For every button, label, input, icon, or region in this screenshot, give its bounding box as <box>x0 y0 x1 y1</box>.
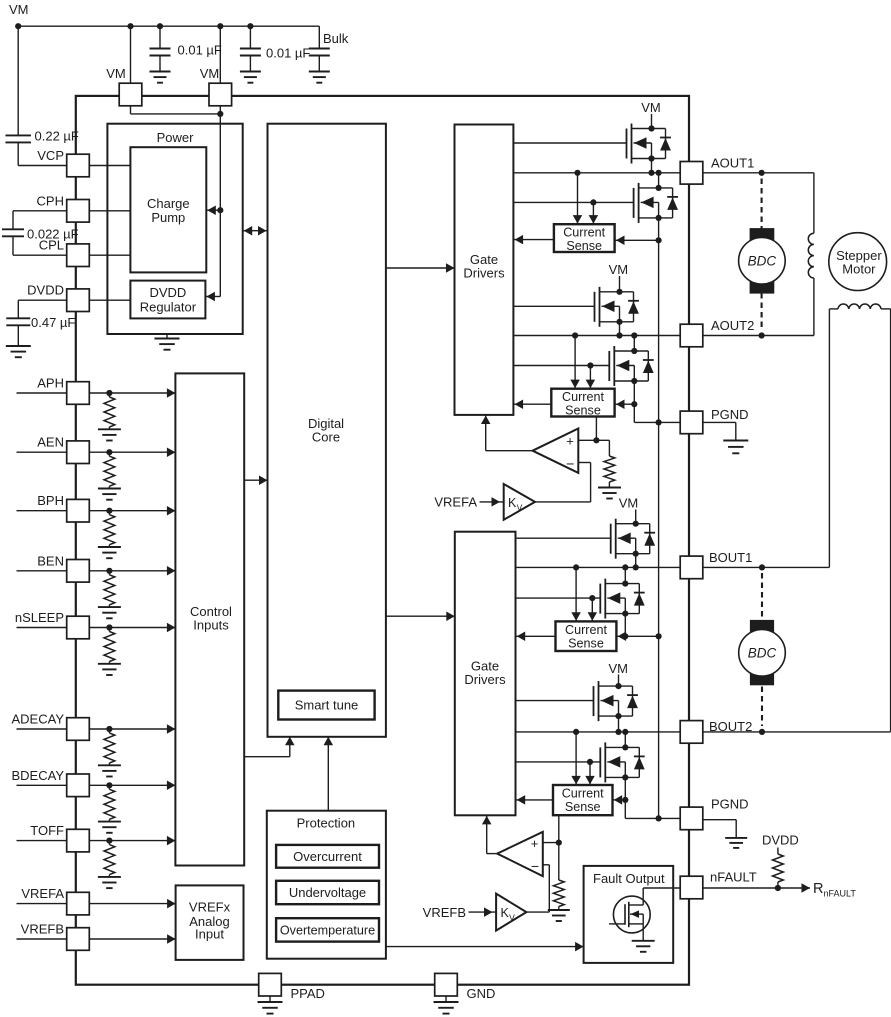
svg-text:Bulk: Bulk <box>323 31 349 46</box>
svg-text:Regulator: Regulator <box>140 300 197 315</box>
svg-text:Drivers: Drivers <box>464 672 506 687</box>
svg-text:BDC: BDC <box>748 646 777 661</box>
svg-text:Sense: Sense <box>568 636 604 650</box>
svg-text:nSLEEP: nSLEEP <box>15 610 64 625</box>
svg-text:Input: Input <box>195 927 224 942</box>
svg-text:nFAULT: nFAULT <box>824 889 857 899</box>
svg-text:Protection: Protection <box>297 816 356 831</box>
svg-text:AOUT2: AOUT2 <box>711 318 754 333</box>
svg-text:VREFB: VREFB <box>423 905 466 920</box>
svg-text:VREFB: VREFB <box>21 922 64 937</box>
svg-text:BDECAY: BDECAY <box>12 768 65 783</box>
svg-text:V: V <box>509 913 515 923</box>
svg-text:0.47 µF: 0.47 µF <box>31 315 75 330</box>
svg-text:Smart tune: Smart tune <box>295 698 359 713</box>
svg-text:Drivers: Drivers <box>463 266 505 281</box>
svg-text:VM: VM <box>641 100 661 115</box>
svg-text:VREFx: VREFx <box>189 900 231 915</box>
svg-text:Charge: Charge <box>147 196 190 211</box>
svg-text:DVDD: DVDD <box>762 833 799 848</box>
svg-text:Core: Core <box>312 430 340 445</box>
svg-text:BOUT1: BOUT1 <box>709 550 752 565</box>
svg-text:ADECAY: ADECAY <box>12 712 65 727</box>
svg-text:V: V <box>517 503 523 513</box>
svg-text:PGND: PGND <box>711 407 749 422</box>
svg-text:AOUT1: AOUT1 <box>711 156 754 171</box>
svg-text:VM: VM <box>9 2 29 17</box>
svg-text:Current: Current <box>562 390 604 404</box>
svg-text:−: − <box>566 456 574 472</box>
svg-text:0.01 µF: 0.01 µF <box>178 43 222 58</box>
svg-text:Inputs: Inputs <box>193 618 229 633</box>
svg-text:VM: VM <box>609 262 629 277</box>
svg-text:VM: VM <box>619 496 639 511</box>
svg-text:nFAULT: nFAULT <box>710 870 757 885</box>
svg-text:Fault Output: Fault Output <box>593 871 665 886</box>
svg-text:BDC: BDC <box>748 254 777 269</box>
svg-text:DVDD: DVDD <box>27 283 64 298</box>
svg-text:Overcurrent: Overcurrent <box>293 849 362 864</box>
svg-text:−: − <box>531 858 539 874</box>
svg-text:TOFF: TOFF <box>30 823 64 838</box>
svg-text:0.22 µF: 0.22 µF <box>35 129 79 144</box>
svg-text:Power: Power <box>157 130 195 145</box>
svg-text:Undervoltage: Undervoltage <box>289 885 366 900</box>
svg-text:VREFA: VREFA <box>21 886 64 901</box>
svg-text:BPH: BPH <box>37 493 64 508</box>
svg-text:+: + <box>566 433 574 448</box>
svg-text:PGND: PGND <box>711 797 749 812</box>
svg-text:VM: VM <box>106 66 126 81</box>
svg-text:APH: APH <box>37 376 64 391</box>
svg-text:AEN: AEN <box>37 435 64 450</box>
svg-text:Current: Current <box>563 225 605 239</box>
svg-text:VM: VM <box>200 66 220 81</box>
svg-text:R: R <box>813 881 823 897</box>
svg-text:Current: Current <box>562 786 604 800</box>
svg-text:DVDD: DVDD <box>149 285 186 300</box>
svg-text:Sense: Sense <box>565 800 601 814</box>
svg-text:Sense: Sense <box>565 403 601 417</box>
svg-text:CPH: CPH <box>37 193 64 208</box>
svg-text:Overtemperature: Overtemperature <box>280 923 375 937</box>
svg-text:Pump: Pump <box>151 210 185 225</box>
svg-text:Motor: Motor <box>842 262 876 277</box>
svg-text:Current: Current <box>565 623 607 637</box>
svg-text:0.01 µF: 0.01 µF <box>266 46 310 61</box>
svg-text:GND: GND <box>467 986 496 1001</box>
svg-text:+: + <box>531 836 539 851</box>
svg-text:PPAD: PPAD <box>291 986 325 1001</box>
svg-text:VM: VM <box>608 661 628 676</box>
svg-text:0.022 µF: 0.022 µF <box>27 227 79 242</box>
svg-text:BEN: BEN <box>37 553 64 568</box>
svg-text:VCP: VCP <box>37 148 64 163</box>
svg-text:VREFA: VREFA <box>434 495 477 510</box>
svg-text:Sense: Sense <box>566 239 602 253</box>
